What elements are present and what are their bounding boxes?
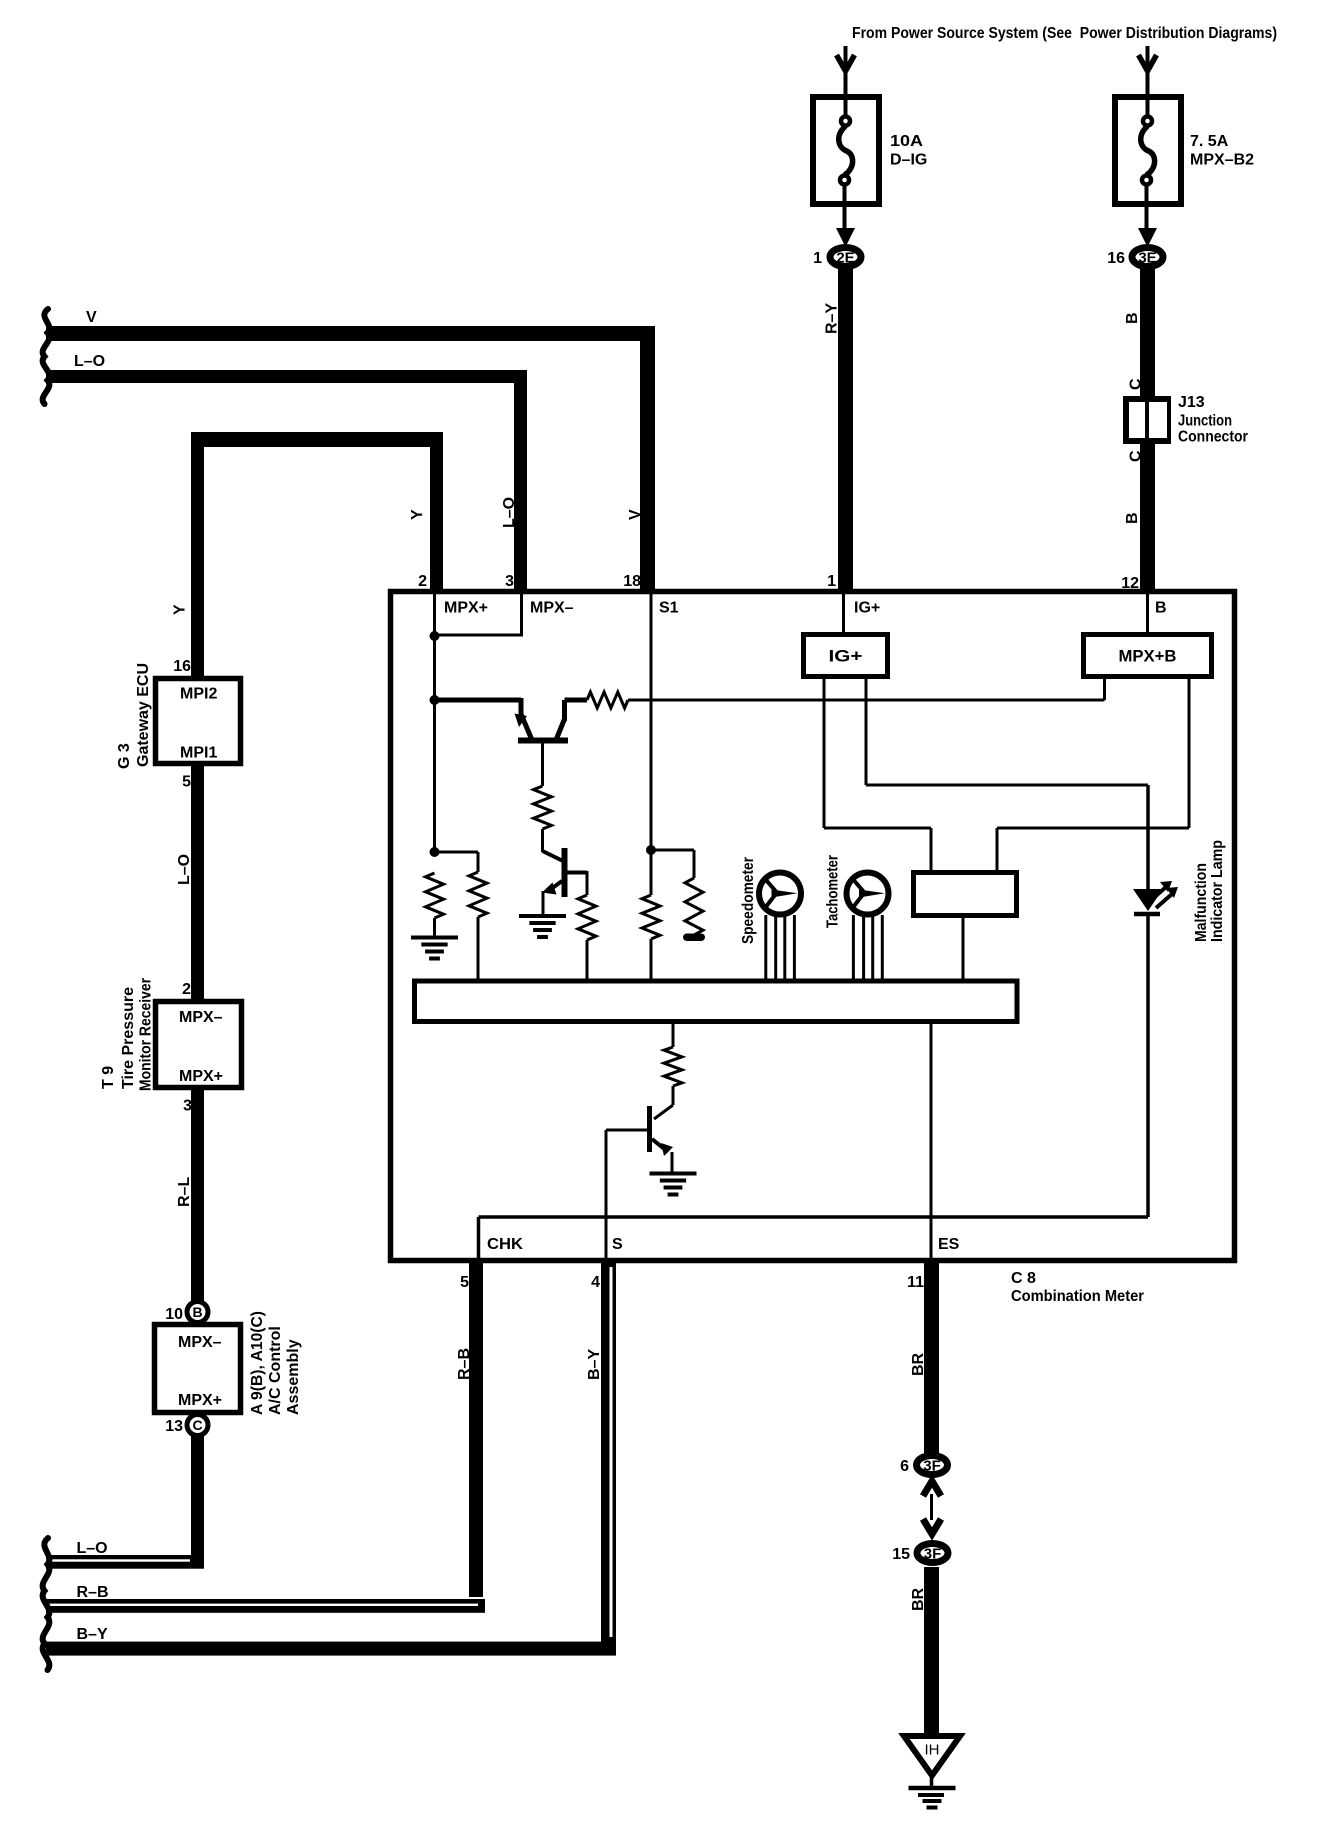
svg-text:MPX–: MPX– [179, 1009, 223, 1026]
svg-text:Speedometer: Speedometer [740, 857, 757, 944]
svg-text:Tachometer: Tachometer [825, 855, 842, 928]
svg-text:A 9(B), A10(C): A 9(B), A10(C) [249, 1311, 266, 1415]
svg-text:L–O: L–O [74, 353, 105, 370]
svg-text:MPI2: MPI2 [180, 686, 217, 703]
svg-text:MPX–: MPX– [178, 1334, 222, 1351]
svg-text:B–Y: B–Y [77, 1626, 108, 1643]
svg-text:1: 1 [813, 250, 822, 267]
svg-text:Y: Y [409, 509, 426, 520]
svg-text:13: 13 [165, 1418, 183, 1435]
svg-text:3F: 3F [924, 1545, 942, 1562]
svg-text:4: 4 [591, 1274, 600, 1291]
svg-text:2E: 2E [836, 249, 854, 266]
svg-text:Y: Y [172, 604, 189, 615]
svg-text:R–B: R–B [456, 1348, 473, 1380]
svg-text:B: B [1155, 600, 1167, 617]
svg-text:C: C [192, 1417, 202, 1433]
svg-text:16: 16 [1107, 250, 1125, 267]
svg-text:MPX+: MPX+ [179, 1068, 223, 1085]
svg-text:J13: J13 [1178, 394, 1205, 411]
svg-text:G 3: G 3 [116, 743, 133, 769]
svg-text:Indicator Lamp: Indicator Lamp [1209, 840, 1226, 942]
svg-text:MPX–: MPX– [530, 600, 574, 617]
svg-text:Tire Pressure: Tire Pressure [120, 987, 137, 1089]
svg-text:C: C [1128, 450, 1145, 462]
svg-text:MPX+: MPX+ [444, 600, 488, 617]
svg-text:B: B [1124, 312, 1141, 324]
svg-text:R–Y: R–Y [824, 303, 841, 334]
svg-text:16: 16 [173, 658, 191, 675]
svg-text:5: 5 [182, 774, 191, 791]
svg-text:7. 5A: 7. 5A [1190, 133, 1229, 150]
svg-text:2: 2 [182, 981, 191, 998]
svg-text:3E: 3E [1138, 249, 1156, 266]
svg-text:2: 2 [418, 573, 427, 590]
svg-text:Assembly: Assembly [285, 1339, 302, 1415]
svg-text:B: B [192, 1304, 202, 1320]
svg-text:3: 3 [505, 573, 514, 590]
svg-text:A/C Control: A/C Control [267, 1326, 284, 1415]
svg-text:L–O: L–O [501, 497, 518, 528]
svg-text:BR: BR [910, 1587, 927, 1611]
svg-text:S: S [612, 1236, 623, 1253]
svg-text:R–L: R–L [176, 1177, 193, 1207]
svg-text:MPX+: MPX+ [178, 1392, 222, 1409]
svg-text:BR: BR [910, 1352, 927, 1376]
svg-text:MPX+B: MPX+B [1119, 647, 1177, 666]
svg-text:V: V [86, 309, 97, 326]
svg-text:B–Y: B–Y [586, 1349, 603, 1380]
svg-text:Monitor Receiver: Monitor Receiver [138, 978, 155, 1091]
svg-text:CHK: CHK [487, 1236, 523, 1253]
svg-text:IG+: IG+ [854, 600, 880, 617]
svg-text:D–IG: D–IG [890, 152, 927, 169]
svg-text:L–O: L–O [176, 854, 193, 885]
svg-text:3F: 3F [923, 1457, 941, 1474]
svg-text:10A: 10A [890, 133, 923, 150]
svg-text:3: 3 [183, 1098, 192, 1115]
svg-text:C 8: C 8 [1011, 1270, 1036, 1287]
svg-text:18: 18 [623, 573, 641, 590]
svg-text:S1: S1 [659, 600, 679, 617]
svg-text:Malfunction: Malfunction [1193, 863, 1210, 942]
svg-text:Junction: Junction [1178, 413, 1232, 430]
svg-text:R–B: R–B [77, 1584, 109, 1601]
svg-text:C: C [1128, 378, 1145, 390]
svg-text:MPX–B2: MPX–B2 [1190, 152, 1254, 169]
svg-text:T 9: T 9 [100, 1066, 117, 1089]
svg-text:B: B [1124, 512, 1141, 524]
svg-text:L–O: L–O [77, 1540, 108, 1557]
svg-text:10: 10 [165, 1306, 183, 1323]
svg-text:MPI1: MPI1 [180, 745, 217, 762]
svg-text:1: 1 [827, 573, 836, 590]
svg-text:Gateway ECU: Gateway ECU [135, 663, 152, 767]
svg-text:15: 15 [892, 1546, 910, 1563]
svg-text:Combination Meter: Combination Meter [1011, 1288, 1144, 1305]
svg-text:11: 11 [907, 1274, 924, 1291]
svg-text:Connector: Connector [1178, 429, 1248, 446]
svg-text:ES: ES [938, 1236, 960, 1253]
svg-text:5: 5 [460, 1274, 469, 1291]
svg-text:V: V [627, 509, 644, 520]
svg-text:From Power Source System (See: From Power Source System (See Power Dist… [852, 25, 1277, 42]
svg-text:IH: IH [925, 1742, 940, 1759]
svg-text:IG+: IG+ [829, 647, 863, 666]
svg-text:6: 6 [900, 1458, 909, 1475]
